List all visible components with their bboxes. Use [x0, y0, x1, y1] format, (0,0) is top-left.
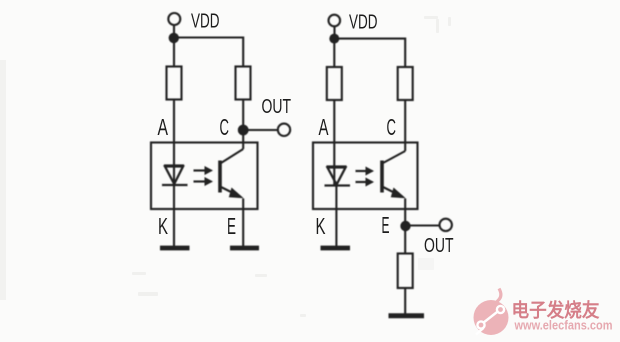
svg-text:A: A — [158, 114, 169, 140]
svg-text:C: C — [387, 114, 397, 140]
svg-text:OUT: OUT — [424, 235, 454, 257]
wire — [333, 39, 335, 67]
wire OUT — [243, 129, 278, 131]
junction dot (left VDD node) — [169, 33, 179, 43]
VDD terminal (left) — [168, 13, 180, 25]
ground (right K) — [321, 246, 351, 251]
ground (left K) — [160, 246, 190, 251]
svg-text:A: A — [319, 114, 329, 140]
wire — [173, 100, 175, 185]
watermark logo tail — [494, 289, 501, 308]
optocoupler U1 box — [151, 143, 258, 210]
ground (right E) — [389, 313, 425, 318]
junction dot (right VDD node) — [329, 34, 339, 44]
phototransistor Q1 — [220, 149, 244, 198]
svg-text:K: K — [158, 213, 168, 239]
wire — [333, 100, 335, 185]
light arrows (left) — [194, 166, 214, 186]
svg-text:C: C — [220, 114, 230, 140]
wire — [174, 38, 243, 67]
light arrows (right) — [356, 167, 375, 187]
svg-text:OUT: OUT — [262, 96, 292, 118]
wire — [173, 38, 175, 67]
junction dot (node E / OUT) — [400, 221, 410, 231]
scan smudge left margin — [0, 60, 6, 300]
wire (cathode to ground) — [173, 184, 175, 246]
watermark logo traces — [476, 306, 504, 335]
svg-text:VDD: VDD — [349, 11, 378, 34]
resistor R3 — [327, 67, 342, 100]
junction dot (node C / OUT) — [238, 125, 249, 136]
wire — [334, 39, 405, 67]
phototransistor Q2 — [382, 151, 406, 198]
resistor R4 — [398, 67, 413, 100]
wire (right cathode to ground) — [335, 185, 337, 246]
LED D1 — [162, 166, 188, 186]
svg-text:E: E — [382, 212, 390, 238]
OUT terminal (right) — [440, 219, 452, 231]
wire — [333, 26, 335, 35]
resistor R1 — [167, 67, 182, 100]
OUT terminal (left) — [278, 124, 290, 136]
wire — [173, 25, 175, 34]
wire — [242, 100, 244, 150]
optocoupler U2 box — [313, 143, 418, 210]
wire — [404, 288, 406, 314]
watermark logo disc — [474, 300, 509, 335]
svg-text:E: E — [227, 213, 236, 239]
wire — [404, 100, 406, 151]
resistor R5 — [398, 254, 413, 289]
svg-text:VDD: VDD — [191, 10, 220, 33]
svg-text:K: K — [316, 213, 326, 239]
wire OUT (right) — [406, 224, 441, 226]
VDD terminal (right) — [329, 15, 341, 27]
wire (emitter to ground) — [242, 199, 244, 247]
LED D2 — [325, 167, 351, 186]
resistor R2 — [236, 67, 251, 100]
ground (left E) — [230, 246, 259, 251]
wire (emitter to E node) — [404, 199, 406, 254]
faint scan marks — [132, 16, 451, 317]
svg-text:www.elecfans.com: www.elecfans.com — [514, 319, 613, 333]
